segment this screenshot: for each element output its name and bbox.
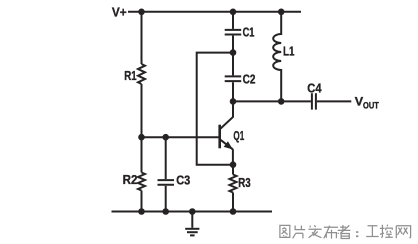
wire collector node to C4 (233, 100, 311, 102)
wire V+ rail down to R1 (141, 12, 143, 64)
Q1 base bar (218, 125, 221, 149)
svg-text:R2: R2 (123, 172, 138, 187)
Q1 emitter arrow (224, 141, 233, 149)
capacitor C4 (312, 93, 316, 109)
wire R1 to R2 through base node (141, 84, 143, 173)
label VOUT (355, 95, 380, 111)
node dot: top rail / L1 branch (278, 9, 285, 16)
wire feedback: C1/C2 junction to emitter (197, 53, 233, 165)
node dot: rail / R2 (138, 208, 145, 215)
wire C4 to VOUT (317, 100, 351, 102)
svg-text:OUT: OUT (363, 100, 379, 110)
wire R2 to ground rail (141, 191, 143, 212)
node dot: emitter node (230, 161, 237, 168)
node dot: rail / R3 (230, 208, 237, 215)
svg-text:C1: C1 (243, 25, 255, 40)
svg-text:C4: C4 (307, 81, 322, 96)
svg-text:R1: R1 (124, 68, 136, 83)
capacitor C2 (225, 53, 242, 102)
watermark text 图片发布者：工控网 (280, 225, 411, 239)
svg-text:C3: C3 (176, 172, 190, 187)
node dot: rail / C3 (162, 208, 169, 215)
transistor Q1 (220, 101, 233, 164)
svg-text:Q1: Q1 (233, 128, 244, 143)
inductor L1 (273, 12, 281, 102)
node dot: collector node (230, 98, 237, 105)
Q1 emitter vertical (232, 149, 234, 165)
svg-text:R3: R3 (238, 175, 250, 190)
node dot: L1 bottom / output (278, 98, 285, 105)
wire bottom ground rail (112, 211, 273, 213)
svg-text:L1: L1 (283, 44, 294, 59)
node dot: top rail / R1 branch (138, 9, 145, 16)
Q1 collector lead (221, 101, 234, 128)
Q1 emitter lead (221, 140, 233, 150)
wire top rail V+ (128, 11, 301, 13)
node dot: C1/C2 junction (230, 49, 237, 56)
node dot: top rail / C1 branch (230, 9, 237, 16)
capacitor C1 (225, 12, 242, 53)
ground (185, 212, 199, 236)
svg-text:C2: C2 (243, 72, 256, 87)
node dot: C3 top (162, 134, 169, 141)
resistor R3 (230, 165, 237, 212)
resistor R1 (138, 64, 145, 84)
resistor R2 (138, 173, 145, 191)
svg-text:V+: V+ (112, 4, 127, 19)
capacitor C3 (158, 137, 175, 211)
node dot: rail / ground (189, 208, 196, 215)
node dot: R1/R2 divider base node (138, 134, 145, 141)
wire base node to Q1 base (142, 136, 220, 138)
